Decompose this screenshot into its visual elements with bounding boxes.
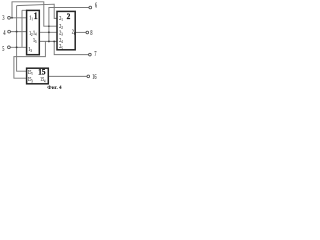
svg-text:4: 4 — [3, 30, 5, 37]
terminal circle 4 — [8, 30, 11, 33]
wire feedback loop from y41.4 down-left-down to block15 lower-left pin — [14, 41, 46, 78]
wire block1 pin 1_5 to block2 pin 2_4 — [39, 40, 57, 42]
svg-text:5: 5 — [2, 46, 4, 53]
block 2 — [57, 11, 75, 49]
junction node at terminal5 wire — [16, 46, 18, 48]
wire terminal3 to block1 pin 1_1 — [10, 17, 26, 19]
svg-text:3: 3 — [2, 15, 4, 22]
junction on wire y41.4 at x54.2 — [53, 40, 55, 42]
svg-text:1: 1 — [34, 10, 38, 21]
terminal circle 5 — [8, 46, 11, 49]
terminal circle 3 — [8, 16, 11, 19]
wire block1 pin 1_4 to block2 pin 2_3 — [39, 31, 57, 33]
wire branch down from junction x54.2 to terminal 7 — [54, 41, 88, 54]
terminal circle 8 — [86, 31, 89, 34]
junction on wire y26.2 at V2 — [48, 25, 50, 27]
junction node at terminal3 wire — [11, 17, 13, 19]
svg-text:6: 6 — [95, 3, 97, 10]
wire left column V_b: top corner to pin 2_1 and down to block15 upper-left pin — [17, 4, 57, 71]
junction node at terminal4 wire — [16, 31, 18, 33]
svg-text:16: 16 — [92, 74, 96, 81]
block 15 — [27, 68, 49, 84]
wire node3 loop: up at x12, right along top, down at x43.8, right at y26.2 to block2 pin 2_2 — [12, 2, 57, 26]
block 1 — [27, 10, 40, 54]
junction on wire y32.3 at V2 — [48, 31, 50, 33]
svg-text:2: 2 — [67, 12, 71, 21]
terminal circle 6 — [89, 6, 92, 9]
wire to terminal 6 with V2 drop at x48.9 — [49, 8, 89, 42]
terminal circle 7 — [89, 53, 92, 56]
junction on wire y41.4 at V2 — [48, 40, 50, 42]
svg-text:8: 8 — [90, 30, 92, 37]
wire left column V_c from corner y10.3 down to 5-wire — [22, 10, 27, 47]
wire terminal4 to block1 pin 1_2 — [11, 31, 27, 33]
svg-text:Фиг. 4: Фиг. 4 — [47, 85, 62, 91]
wire terminal5 to block1 pin 1_3 — [10, 46, 26, 48]
wire block15 right pin to terminal 16 — [49, 75, 87, 77]
svg-text:7: 7 — [94, 51, 96, 58]
terminal circle 16 — [87, 75, 90, 78]
wire block2 right pin to terminal 8 — [76, 31, 87, 33]
svg-text:15: 15 — [38, 67, 45, 77]
